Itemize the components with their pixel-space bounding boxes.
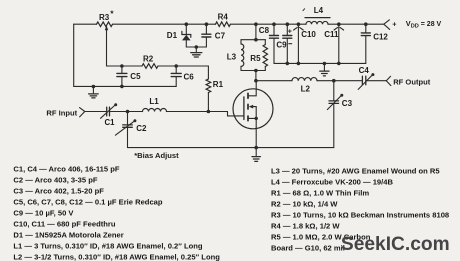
inductor L1 [143,97,167,112]
svg-text:C3 — Arco 402, 1.5-20 pF: C3 — Arco 402, 1.5-20 pF [13,187,104,196]
parts list left column [13,165,220,261]
wire between R2 and R1 corner [158,65,208,67]
svg-text:SeekIC.com: SeekIC.com [341,234,450,255]
capacitor C4 variable [358,66,386,90]
wire drain node to L2 [256,80,292,82]
svg-text:C1, C4 — Arco 406, 16-115 pF: C1, C4 — Arco 406, 16-115 pF [13,165,119,174]
inductor L2 [292,78,317,94]
resistor R2 [142,55,158,69]
capacitor C12 [361,24,388,63]
wire left vertical drop from rail [73,24,75,86]
wire top supply rail after L4 to VDD connector [328,23,384,25]
capacitor C9 electrolytic [276,24,291,63]
svg-text:L1 — 3 Turns, 0.310″ ID, #18 A: L1 — 3 Turns, 0.310″ ID, #18 AWG Enamel,… [13,242,203,251]
ground at source [252,148,260,162]
svg-text:R3 — 10 Turns, 10 kΩ Beckman I: R3 — 10 Turns, 10 kΩ Beckman Instruments… [271,211,449,220]
svg-text:L2 — 3-1/2 Turns, 0.310″ ID, #: L2 — 3-1/2 Turns, 0.310″ ID, #18 AWG Ena… [13,253,220,261]
connector +VDD supply [384,19,442,30]
capacitor C2 variable (bias adjust) [115,112,147,148]
node junction dots [92,22,368,149]
wire top supply rail left segment [74,23,97,25]
diode D1 zener [167,24,191,47]
svg-text:D1 — 1N5925A Motorola Zener: D1 — 1N5925A Motorola Zener [13,231,123,240]
svg-text:R2 — 10 kΩ, 1/4 W: R2 — 10 kΩ, 1/4 W [271,200,338,209]
resistor R3 (10-turn pot) [97,9,115,66]
svg-text:C5, C6, C7, C8, C12 — 0.1 µF E: C5, C6, C7, C8, C12 — 0.1 µF Erie Redcap [13,198,162,207]
parts list right column [271,167,449,253]
svg-text:C2 — Arco 403, 3-35 pF: C2 — Arco 403, 3-35 pF [13,176,97,185]
svg-text:L4 — Ferroxcube VK-200 — 19/4B: L4 — Ferroxcube VK-200 — 19/4B [271,178,393,187]
wire top supply rail middle segment [113,23,216,25]
wire C1 to L1 [110,111,142,113]
connector RF Input [46,108,84,118]
capacitor C11 feedthrough [324,24,343,63]
svg-text:Board — G10, 62 mil: Board — G10, 62 mil [271,244,345,253]
wire decoupling ground bus [274,62,366,64]
capacitor C8 [259,24,279,63]
ground on bus [320,64,329,76]
wire L1 to gate [167,111,228,113]
wire L3/R5 top bar [241,39,265,41]
wire L3/R5 to drain node [255,71,257,81]
node feed from rail to L3/R5 [255,24,257,40]
capacitor C6 [171,66,194,86]
svg-text:R1 — 68 Ω, 1.0 W Thin Film: R1 — 68 Ω, 1.0 W Thin Film [271,189,369,198]
capacitor C10 feedthrough [294,24,317,63]
wire D1-C7 bottom tie [186,46,206,48]
resistor R5 [250,40,267,71]
capacitor C3 variable [327,81,352,148]
wire bias/source return row [128,147,334,149]
svg-text:C9 — 10 µF, 50 V: C9 — 10 µF, 50 V [13,209,74,218]
capacitor C5 [117,66,141,86]
resistor R1 [206,66,223,112]
wire gate-bias row from R3 wiper [107,65,143,67]
ground on bypass return [89,87,99,98]
connector RF Output [386,76,430,86]
wire L3/R5 bottom bar [241,70,265,72]
ground below D1/C7 [191,47,202,57]
svg-text:C10, C11 — 680 pF Feedthru: C10, C11 — 680 pF Feedthru [13,220,115,229]
wire L2 to C3 node [317,80,362,82]
wire input to C1 [85,111,106,113]
wire bottom-left ground/bypass return [74,85,177,87]
capacitor C1 variable [101,103,118,127]
capacitor C7 [202,24,226,47]
wire top supply rail right segment to L4 [230,23,306,25]
transistor Q1 power MOSFET [228,81,274,148]
inductor L4 [303,6,330,24]
inductor L3 [227,40,244,71]
svg-text:R4 — 1.8 kΩ, 1/2 W: R4 — 1.8 kΩ, 1/2 W [271,222,340,231]
svg-text:L3 — 20 Turns, #20 AWG Enamel: L3 — 20 Turns, #20 AWG Enamel Wound on R… [271,167,440,176]
resistor R4 [216,12,231,26]
